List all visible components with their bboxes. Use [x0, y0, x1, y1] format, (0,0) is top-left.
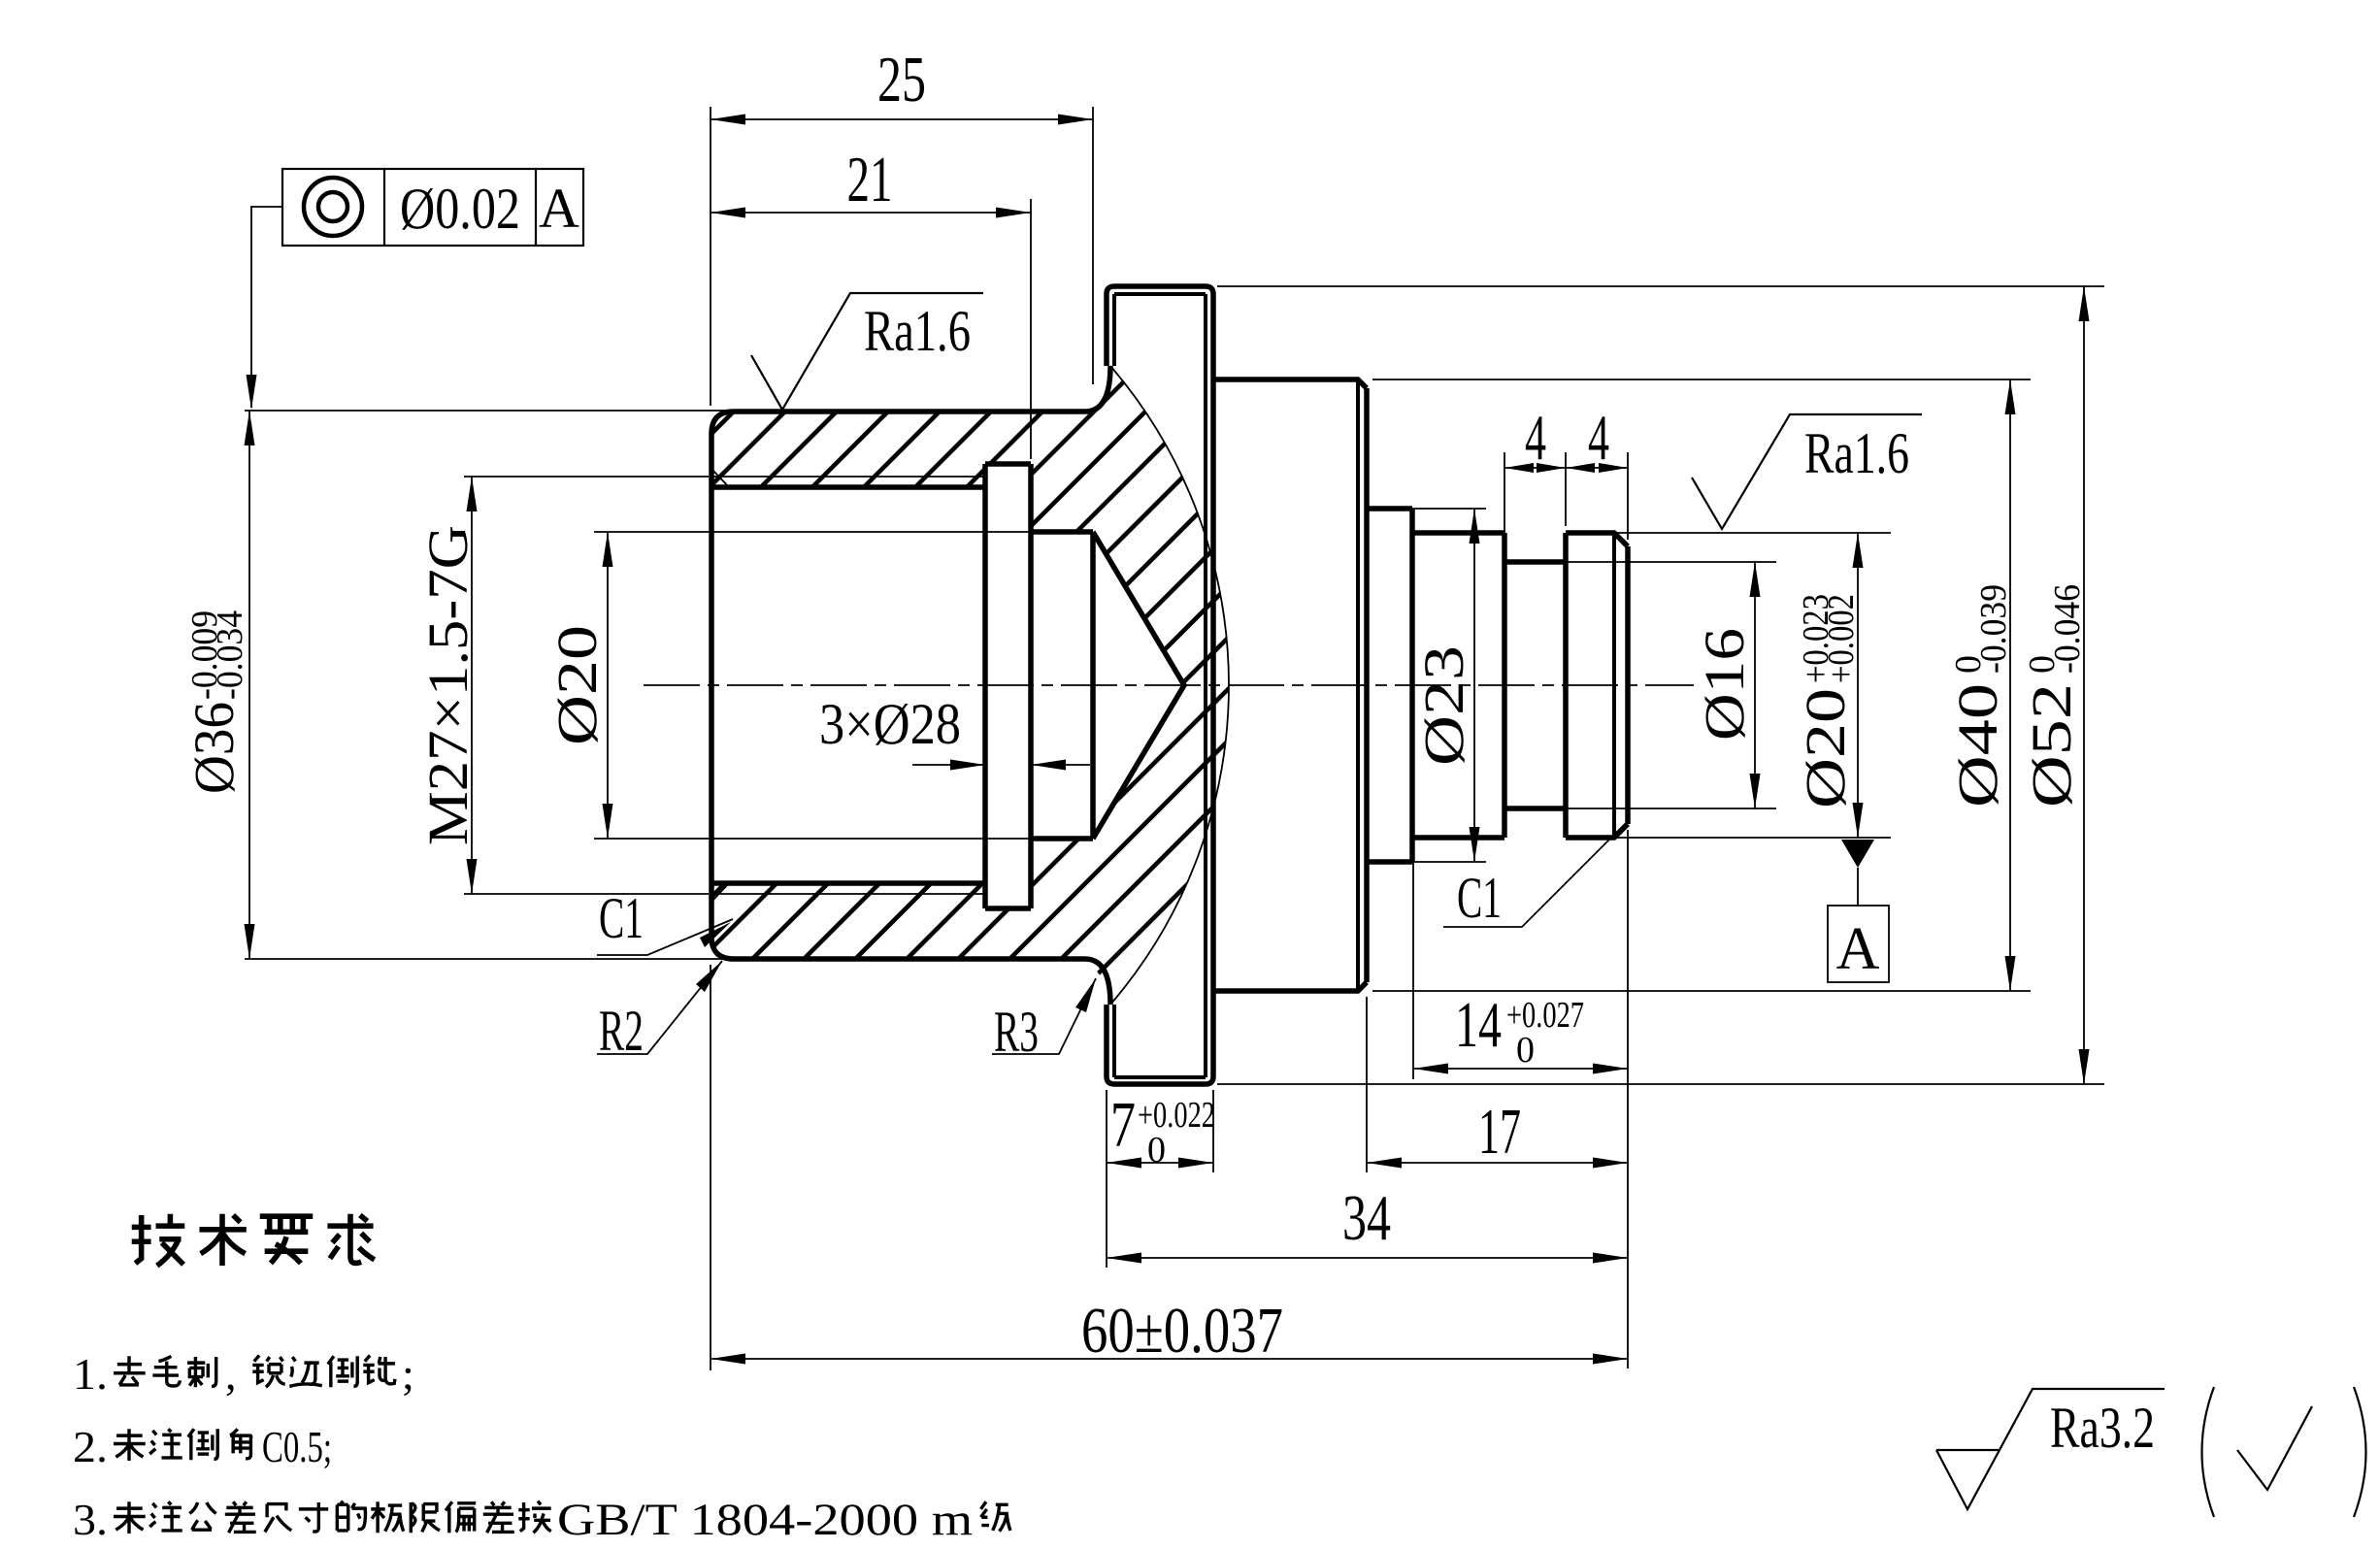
svg-text:+0.002: +0.002: [1821, 594, 1862, 683]
svg-text:3.: 3.: [73, 1495, 108, 1544]
ext O20 land top: [1572, 532, 1891, 534]
dim 4 4: [1504, 467, 1628, 469]
dim O40: [2009, 379, 2011, 991]
M27x1.5-7G rotated: [416, 525, 479, 845]
ext O20 land bottom: [1572, 837, 1891, 839]
dim O52: [2083, 286, 2085, 1084]
O40 rotated with tolerance: [1946, 584, 2014, 808]
ext M27 bottom: [464, 893, 709, 895]
land O20 first: [1412, 533, 1504, 838]
dim 25: [711, 118, 1093, 120]
ext O40 face down: [1366, 997, 1368, 1172]
surface finish Ra3.2 bottom: [1936, 1389, 2165, 1509]
leader R2: [597, 961, 722, 1054]
dim O36: [248, 411, 250, 959]
O40 chamfer root line: [1356, 379, 1360, 991]
ext bore O20 top: [594, 531, 1031, 533]
ext left face up: [710, 107, 711, 406]
ext O52 bottom: [1217, 1083, 2104, 1085]
svg-text:7: 7: [1110, 1089, 1136, 1161]
dim 60: [711, 1358, 1628, 1360]
svg-text:0: 0: [1516, 1030, 1535, 1071]
bore O20 walls: [1031, 532, 1093, 839]
other surfaces parens and check: [2202, 1387, 2215, 1517]
O20 bore rotated: [545, 625, 609, 745]
dim O20 bore: [607, 532, 609, 839]
O36 rotated with tolerance: [182, 610, 250, 794]
technical requirements heading: [132, 1214, 185, 1266]
svg-text:Ø52: Ø52: [2020, 683, 2083, 808]
ext groove right x1062: [1030, 199, 1032, 459]
sleeve outer profile with R2 corners and R3 fillets: [711, 366, 1110, 1005]
svg-text:-0.046: -0.046: [2047, 584, 2088, 674]
bore end face line: [1090, 532, 1096, 839]
svg-text:R3: R3: [994, 1000, 1039, 1064]
ext O23 top: [1371, 508, 1486, 510]
hatch lower wall of sleeve section: [711, 685, 1229, 1005]
ext bore end x1126: [1092, 107, 1094, 384]
svg-text:Ø16: Ø16: [1693, 628, 1756, 741]
ext right end up: [1627, 452, 1629, 540]
ext O23 bottom: [1371, 861, 1486, 863]
svg-text:4: 4: [1588, 402, 1609, 474]
dim O23: [1473, 509, 1475, 862]
flange chamfer inner edges: [1114, 294, 1206, 1077]
flange O52 outline: [1107, 286, 1213, 1084]
svg-text:Ø20: Ø20: [545, 625, 609, 745]
concentricity symbol: [304, 178, 362, 236]
svg-text:Ra1.6: Ra1.6: [1804, 421, 1909, 485]
svg-text:M27×1.5-7G: M27×1.5-7G: [416, 525, 479, 845]
svg-text:Ra3.2: Ra3.2: [2050, 1396, 2155, 1460]
dim 14: [1413, 1068, 1628, 1070]
svg-text:2.: 2.: [73, 1422, 108, 1471]
dim 21: [711, 212, 1031, 214]
ext O52 top: [1217, 285, 2104, 287]
datum A triangle and box: [1841, 840, 1874, 868]
ext collar right down: [1412, 843, 1414, 1079]
centerline: [644, 684, 1694, 686]
drill cone point: [1093, 532, 1184, 839]
ext right end down: [1627, 830, 1629, 1369]
leader C1 right: [1443, 823, 1626, 927]
svg-text:Ø0.02: Ø0.02: [400, 177, 520, 241]
tolerance frame: [282, 169, 583, 246]
thread relief groove 3xO28: [985, 464, 1031, 908]
svg-text:GB/T 1804-2000 m: GB/T 1804-2000 m: [557, 1495, 973, 1545]
hatch upper wall of sleeve section: [711, 366, 1229, 685]
O52 rotated with tolerance: [2020, 584, 2088, 808]
svg-text:17: 17: [1478, 1096, 1521, 1168]
svg-text:;: ;: [402, 1349, 414, 1399]
surface finish Ra1.6 left: [751, 293, 983, 410]
groove O16: [1504, 533, 1566, 838]
dim M27: [471, 477, 473, 894]
ext groove left up: [1504, 452, 1505, 555]
svg-text:Ø20: Ø20: [1794, 688, 1857, 808]
svg-text:Ø23: Ø23: [1412, 645, 1475, 766]
svg-text:R2: R2: [599, 999, 644, 1063]
dim 34: [1107, 1257, 1628, 1259]
dim 3xO28 leader: [912, 764, 1090, 766]
ext O40 bottom: [1372, 990, 2031, 992]
thread entry chamfer C1 edges: [712, 470, 730, 901]
svg-text:Ø40: Ø40: [1946, 683, 2009, 808]
collar O23: [1367, 509, 1412, 862]
end chamfer root line: [1612, 533, 1616, 838]
svg-text:25: 25: [877, 44, 926, 115]
dim 17: [1367, 1162, 1628, 1164]
surface finish Ra1.6 right: [1692, 414, 1922, 529]
svg-text:A: A: [539, 177, 579, 240]
svg-text:-0.039: -0.039: [1973, 584, 2014, 674]
ext bore O20 bottom: [594, 838, 1031, 840]
O23 rotated: [1412, 645, 1475, 766]
svg-text:Ø36: Ø36: [182, 702, 246, 794]
internal thread major lines (thin): [711, 477, 985, 894]
svg-text:1.: 1.: [73, 1349, 108, 1399]
ext left face down: [710, 965, 711, 1370]
ext flange left down: [1106, 1090, 1107, 1268]
dim O16: [1754, 562, 1756, 808]
frame leader: [251, 207, 282, 408]
ext O36 top: [245, 410, 735, 412]
svg-text:C1: C1: [599, 886, 644, 950]
O20 fit rotated with tolerance: [1794, 594, 1862, 808]
internal thread minor lines M27: [711, 487, 985, 883]
svg-text:21: 21: [847, 144, 893, 215]
leader C1 left: [597, 919, 733, 955]
ext M27 top: [464, 476, 709, 478]
ext O40 top: [1372, 379, 2031, 380]
svg-text:Ra1.6: Ra1.6: [864, 299, 971, 363]
svg-text:14: 14: [1455, 989, 1502, 1061]
svg-text:C1: C1: [1457, 866, 1502, 930]
svg-text:C0.5;: C0.5;: [262, 1422, 332, 1471]
svg-text:-0.034: -0.034: [210, 610, 250, 700]
svg-text:4: 4: [1525, 402, 1546, 474]
dim O20 fit: [1857, 533, 1859, 838]
svg-text:,: ,: [225, 1349, 237, 1399]
ext O16 bottom: [1510, 808, 1776, 809]
ext land2 left up: [1565, 452, 1567, 526]
local-section break arc: [1110, 366, 1229, 1005]
dim 7: [1107, 1162, 1213, 1164]
shaft O40 section: [1213, 379, 1367, 991]
svg-text:A: A: [1836, 916, 1880, 982]
land O20 second with end chamfer: [1566, 533, 1628, 838]
svg-text:0: 0: [1147, 1130, 1166, 1171]
svg-text:3×Ø28: 3×Ø28: [819, 692, 961, 756]
svg-text:34: 34: [1342, 1182, 1391, 1254]
ext O16 top: [1510, 561, 1776, 563]
ext flange right down: [1212, 1090, 1214, 1172]
ext O36 bottom: [245, 958, 735, 960]
svg-text:60±0.037: 60±0.037: [1081, 1295, 1283, 1367]
O16 rotated: [1693, 628, 1756, 741]
leader R3: [992, 978, 1096, 1054]
